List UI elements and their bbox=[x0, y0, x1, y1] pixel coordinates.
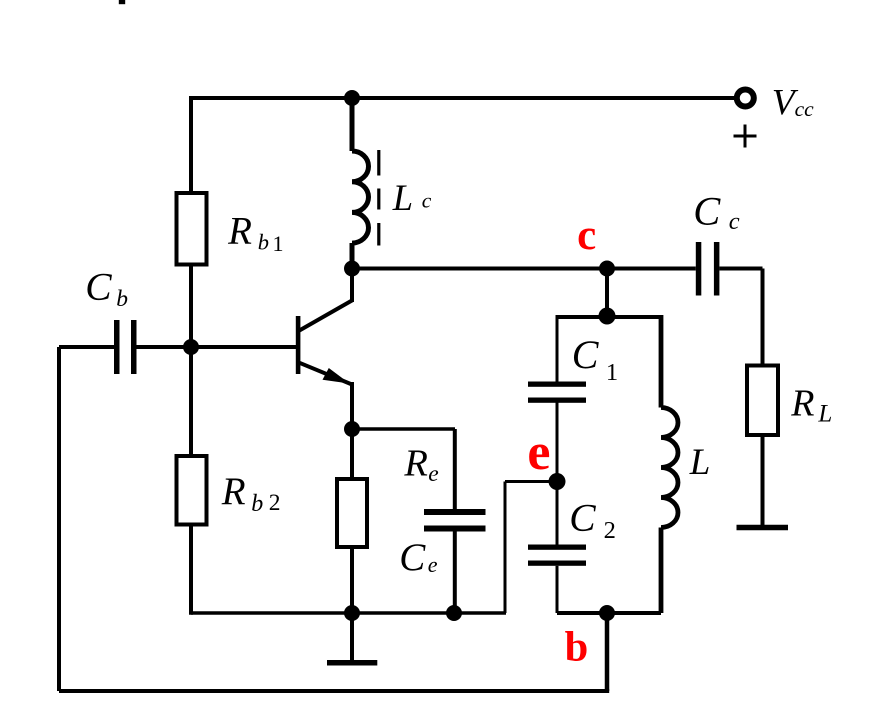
svg-text:b: b bbox=[116, 286, 128, 312]
wire C1 top bbox=[556, 315, 559, 382]
label C1 bbox=[572, 332, 618, 386]
svg-text:C: C bbox=[693, 189, 721, 234]
wire C2 bottom bbox=[556, 566, 559, 613]
svg-text:C: C bbox=[85, 265, 112, 309]
wire left feedback bbox=[57, 347, 61, 691]
svg-text:R: R bbox=[227, 210, 252, 253]
svg-text:L: L bbox=[689, 442, 711, 483]
label Cb bbox=[85, 265, 128, 312]
svg-text:cc: cc bbox=[795, 97, 815, 121]
wire Rb2 branch top bbox=[189, 347, 193, 456]
node bus emitter bbox=[344, 605, 360, 621]
label Ce bbox=[399, 536, 437, 579]
svg-text:c: c bbox=[729, 208, 740, 235]
wire ground bus bbox=[191, 611, 506, 615]
svg-text:R: R bbox=[790, 383, 814, 425]
inductor Lc bbox=[352, 98, 369, 269]
wire Cb left bbox=[59, 345, 114, 349]
svg-text:C: C bbox=[399, 536, 426, 579]
resistor RL bbox=[747, 366, 778, 436]
svg-text:b: b bbox=[258, 229, 269, 254]
svg-text:R: R bbox=[403, 443, 428, 485]
resistor Re body bbox=[337, 429, 367, 613]
svg-text:e: e bbox=[527, 424, 550, 481]
ground bbox=[327, 613, 377, 663]
svg-text:C: C bbox=[569, 495, 596, 539]
node emitter bbox=[344, 421, 360, 437]
label b bbox=[565, 624, 589, 671]
node junction base bbox=[183, 339, 199, 355]
svg-text:c: c bbox=[422, 188, 432, 212]
plus sign bbox=[734, 125, 757, 148]
node e bbox=[549, 473, 566, 490]
label Vcc bbox=[772, 83, 814, 124]
label Rb1 bbox=[227, 210, 283, 256]
cut-off mark top edge bbox=[119, 0, 125, 4]
capacitor Cc bbox=[696, 242, 720, 296]
svg-text:2: 2 bbox=[269, 490, 281, 516]
wire collector rail bbox=[352, 267, 696, 271]
capacitor C2 bbox=[528, 545, 586, 566]
node Lc top bbox=[344, 90, 360, 106]
svg-text:e: e bbox=[428, 552, 438, 577]
node collector bbox=[344, 261, 360, 277]
svg-text:e: e bbox=[428, 461, 438, 487]
wire Cc right bbox=[719, 269, 762, 366]
svg-text:L: L bbox=[817, 400, 832, 427]
wire Rb2 bottom bbox=[189, 525, 193, 615]
label Lc bbox=[392, 177, 432, 218]
label Cc bbox=[693, 189, 740, 236]
dashed core line bbox=[377, 150, 380, 246]
resistor Rb1 bbox=[177, 193, 207, 265]
label RL bbox=[790, 383, 832, 428]
svg-text:2: 2 bbox=[604, 517, 616, 544]
resistor Rb2 bbox=[177, 456, 207, 525]
svg-text:1: 1 bbox=[273, 231, 284, 256]
label Re bbox=[403, 443, 438, 488]
wire C1 bottom bbox=[556, 403, 559, 482]
wire bottom feedback bbox=[59, 689, 609, 693]
wire top rail bbox=[191, 96, 735, 100]
node b bbox=[599, 605, 615, 621]
wire Rb1 branch top bbox=[189, 96, 193, 193]
svg-text:L: L bbox=[392, 177, 413, 218]
inductor L bbox=[661, 315, 678, 613]
node bus Ce bbox=[446, 605, 462, 621]
capacitor Ce bbox=[424, 509, 486, 532]
capacitor C1 bbox=[528, 382, 586, 403]
wire RL bottom bbox=[761, 435, 765, 525]
wire base bbox=[137, 345, 297, 349]
capacitor Cb bbox=[114, 320, 137, 374]
wire Rb1 bottom bbox=[189, 265, 193, 348]
node c bbox=[599, 261, 615, 277]
ground RL bbox=[737, 525, 789, 531]
node tank top bbox=[599, 308, 616, 325]
wire tank bottom bbox=[557, 611, 661, 615]
wire tank top bbox=[557, 315, 661, 319]
wire C2 top bbox=[556, 482, 559, 545]
svg-text:C: C bbox=[572, 332, 600, 377]
Vcc terminal bbox=[737, 90, 754, 107]
wire b drop bbox=[605, 613, 610, 691]
label L bbox=[689, 442, 711, 483]
label c bbox=[577, 212, 596, 259]
label Rb2 bbox=[221, 470, 281, 517]
label C2 bbox=[569, 495, 616, 543]
wire c branch bbox=[605, 269, 609, 319]
svg-text:b: b bbox=[565, 624, 589, 671]
label e bbox=[527, 424, 550, 481]
transistor Q1 bbox=[296, 269, 353, 430]
svg-text:c: c bbox=[577, 212, 596, 259]
wire e stub bbox=[505, 482, 557, 614]
svg-text:b: b bbox=[251, 491, 263, 517]
svg-text:1: 1 bbox=[606, 359, 618, 386]
wire Re top bbox=[352, 429, 455, 509]
svg-text:R: R bbox=[221, 470, 246, 513]
wire Ce bottom bbox=[453, 532, 457, 614]
